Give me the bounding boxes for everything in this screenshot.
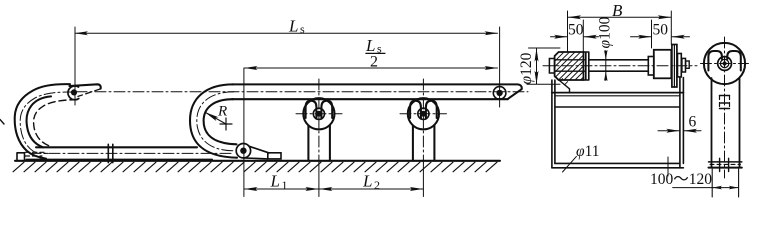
stand horizontal centerline	[701, 63, 749, 65]
stand hub inner ring	[720, 59, 728, 67]
roller 2 left yoke hook	[410, 101, 421, 119]
svg-text:2: 2	[370, 54, 378, 71]
stand wheel	[704, 43, 745, 84]
clevis foot bottom edge	[243, 158, 267, 159]
dimension 50 right extension line	[651, 20, 653, 48]
stand vertical centerline	[724, 37, 726, 178]
R center mark	[220, 118, 232, 130]
phi11 leader	[563, 156, 577, 172]
stand legs	[712, 78, 740, 167]
ground tube centerline	[30, 152, 233, 154]
svg-text:L: L	[362, 172, 372, 191]
tube tip pin ring	[493, 87, 506, 100]
clevis ring	[236, 144, 250, 158]
take-up nut block	[555, 52, 584, 80]
svg-text:s: s	[300, 22, 305, 36]
stowed boom hidden edge (dashed)	[34, 100, 77, 146]
roller 1 right yoke hook	[321, 101, 332, 119]
screw through nut	[555, 60, 586, 71]
right view box left wall	[552, 80, 555, 168]
svg-text:1: 1	[282, 178, 288, 192]
stowed boom outer curve	[15, 84, 70, 158]
100~120 leader	[673, 187, 714, 189]
dimension phi100 arrows	[605, 51, 607, 60]
R leader arrow	[205, 112, 226, 124]
dimension L1 L2 extension lines	[244, 158, 424, 197]
pulley collar	[648, 57, 654, 76]
stand left yoke hook	[708, 51, 722, 71]
svg-text:L: L	[270, 172, 280, 191]
roller 2 vertical centerline	[422, 79, 424, 163]
tube tip pin	[496, 90, 502, 96]
svg-text:L: L	[365, 36, 375, 55]
roller 1 vertical centerline	[318, 79, 320, 163]
roller 1 post	[308, 125, 330, 160]
roller 2 post	[413, 125, 435, 160]
roller 1 pin	[316, 111, 322, 117]
svg-text:R: R	[217, 104, 227, 120]
stand hub ring	[718, 57, 732, 71]
stowed pivot wedge hidden edge	[78, 89, 100, 97]
tube tip taper	[508, 89, 522, 99]
right view box top rim	[552, 92, 684, 94]
dimension Ls/2 line	[245, 67, 498, 69]
ground	[15, 160, 500, 162]
svg-text:100～120: 100～120	[650, 171, 712, 188]
roller 1 horizontal centerline	[296, 113, 342, 115]
stand pin	[723, 61, 727, 65]
stand right yoke hook	[727, 51, 741, 71]
pulley hub	[654, 50, 672, 79]
svg-text:φ11: φ11	[576, 143, 600, 160]
roller 2 right yoke hook	[426, 101, 437, 119]
ground tube top edge	[36, 146, 197, 148]
clevis foot block	[268, 153, 281, 159]
take-up nut hatching	[555, 52, 584, 80]
dimension Ls extension line right	[499, 27, 501, 107]
dimension phi120 extension lines	[527, 48, 560, 84]
pulley disc 2	[678, 54, 682, 77]
stand foot ticks	[720, 158, 729, 171]
dimension L2 line	[320, 188, 423, 190]
stowed pivot pin	[71, 89, 77, 95]
right view box right wall	[680, 78, 684, 168]
dimension 6 arrows	[658, 130, 679, 132]
stowed boom inner curve	[27, 96, 51, 147]
axle end nub	[686, 61, 690, 68]
roller 2 pin	[420, 111, 426, 117]
roller 2 wheel	[408, 98, 439, 129]
dimension L1 line	[245, 188, 319, 190]
svg-text:φ120: φ120	[518, 52, 535, 84]
ground tube coupling	[108, 144, 113, 162]
svg-text:φ100: φ100	[597, 16, 614, 48]
U-bend centerline	[197, 92, 234, 151]
pulley flange inner line	[673, 45, 675, 88]
right view box seam line	[555, 106, 680, 108]
roller 2 horizontal centerline	[400, 113, 447, 115]
U-bend outer curve	[190, 84, 237, 157]
100~120 extension tick	[667, 157, 669, 176]
shaft	[589, 60, 649, 71]
stowed pivot ring	[68, 86, 79, 100]
left support bracket hatching	[560, 79, 568, 85]
roller 1 wheel	[303, 98, 334, 129]
pulley flange	[672, 45, 677, 88]
stand dimension extension lines	[712, 169, 738, 197]
stowed boom centerline	[20, 92, 74, 153]
dimension 100~120 line	[713, 187, 738, 189]
dimension B extension lines	[568, 11, 672, 51]
ground tube end cap	[17, 153, 25, 160]
svg-text:50: 50	[568, 22, 584, 39]
dimension 50 left extension line	[582, 20, 584, 51]
stand foot	[709, 161, 742, 163]
dimension B line	[568, 16, 671, 18]
pulley disc 3	[682, 58, 686, 72]
main tube top edge with tip	[232, 84, 522, 89]
screw shaft end cap	[549, 59, 554, 74]
svg-text:L: L	[288, 17, 298, 36]
dimension Ls/2 extension line left	[243, 68, 245, 158]
roller 1 hub ring	[313, 108, 324, 119]
dimension phi120 line	[536, 49, 538, 84]
roller 1 left yoke hook	[306, 101, 317, 119]
stand slot	[720, 96, 730, 109]
U-bend inner curve	[204, 99, 237, 144]
stowed pivot wedge	[70, 84, 101, 88]
clevis pin	[240, 148, 246, 154]
svg-text:2: 2	[374, 178, 380, 192]
main tube centerline	[76, 91, 528, 93]
axle centerline	[543, 65, 697, 67]
edge artifact mark	[0, 120, 4, 125]
clevis foot wedge top edge	[250, 146, 269, 153]
ground tube end cap hidden lines	[25, 152, 44, 156]
dimension 50 left arrows	[551, 36, 568, 38]
right view box bottom	[552, 163, 684, 167]
take-up nut right face	[584, 52, 589, 80]
dimension Ls extension line left	[74, 27, 76, 105]
dimension 50 right arrows	[631, 36, 652, 38]
stand foot dashed line	[710, 163, 741, 165]
ground hatching	[13, 162, 497, 172]
svg-text:B: B	[612, 1, 623, 20]
roller 2 hub ring	[418, 108, 429, 119]
ground tube bottom edge	[27, 159, 213, 161]
svg-text:50: 50	[653, 22, 669, 39]
svg-text:6: 6	[689, 114, 697, 131]
main tube bottom edge	[232, 98, 508, 100]
left support bracket	[557, 78, 570, 93]
dimension Ls line	[75, 32, 498, 34]
